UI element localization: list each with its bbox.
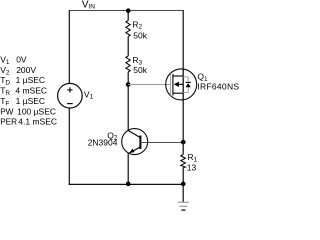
gate bar xyxy=(170,74,172,96)
wire left column lower xyxy=(68,108,70,185)
body diode connector bottom (grey) xyxy=(183,87,188,92)
svg-text:200V: 200V xyxy=(16,65,36,75)
svg-text:1 µSEC: 1 µSEC xyxy=(16,75,45,85)
drain-source vertical xyxy=(182,69,184,100)
junction dot gate node xyxy=(126,82,131,87)
junction dot emitter-bottom rail xyxy=(126,182,131,187)
svg-text:4.1 mSEC: 4.1 mSEC xyxy=(18,117,57,127)
svg-text:2N3904: 2N3904 xyxy=(88,137,118,147)
svg-text:4 mSEC: 4 mSEC xyxy=(15,86,47,96)
svg-text:PER: PER xyxy=(0,118,17,127)
wire ground lead xyxy=(182,184,184,202)
wire right column top (drain) xyxy=(182,10,184,69)
body line with arrow xyxy=(178,83,183,85)
body diode triangle xyxy=(186,83,191,87)
voltage source V1 xyxy=(58,83,83,108)
wire Q2 collector xyxy=(127,85,129,131)
wire source node to R1 xyxy=(182,142,184,154)
ground xyxy=(178,202,190,210)
svg-text:50k: 50k xyxy=(133,65,147,75)
junction dot source-base node xyxy=(181,140,186,145)
mosfet Q1 IRF640NS xyxy=(166,69,197,100)
wire Q2 base xyxy=(140,142,183,144)
resistor R1 xyxy=(181,154,186,167)
transistor Q2 2N3904 xyxy=(122,129,148,155)
wire left column upper xyxy=(68,10,70,83)
pulse source parameter list xyxy=(0,55,57,127)
source horizontal xyxy=(173,92,183,94)
svg-text:1 µSEC: 1 µSEC xyxy=(16,96,45,106)
wire between R2 and R3 xyxy=(127,37,129,57)
wire middle column top xyxy=(127,11,129,21)
body diode cathode bar xyxy=(186,81,191,83)
wire R3 to gate node xyxy=(127,72,129,85)
svg-text:50k: 50k xyxy=(133,31,147,41)
body diode connector top (grey) xyxy=(183,77,188,82)
resistor R2 xyxy=(126,21,130,37)
wire R1 to bottom rail xyxy=(182,168,184,184)
wire gate (grey) xyxy=(128,84,170,86)
junction dot top of R2 xyxy=(126,8,131,13)
svg-text:PW: PW xyxy=(0,107,13,116)
drain horizontal xyxy=(173,75,183,77)
svg-text:13: 13 xyxy=(187,163,197,173)
wire bottom rail xyxy=(69,183,184,185)
resistor R3 xyxy=(126,56,130,72)
junction dot bottom rail right xyxy=(181,182,186,187)
svg-text:IRF640NS: IRF640NS xyxy=(197,81,239,91)
svg-text:100 µSEC: 100 µSEC xyxy=(17,106,56,116)
wire Q2 emitter xyxy=(127,153,129,184)
wire Q1 source down xyxy=(182,100,184,143)
channel bar xyxy=(172,74,174,96)
wire top rail VIN xyxy=(69,10,184,12)
svg-text:0V: 0V xyxy=(16,55,27,65)
